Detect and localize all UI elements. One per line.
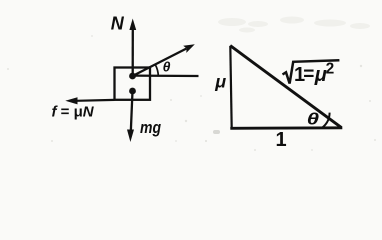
node: upper dot [129, 73, 136, 80]
svg-text:μ: μ [214, 72, 226, 92]
wire: normal force line N [132, 29, 134, 77]
triangle hypotenuse [230, 46, 341, 128]
wire: applied force arrow at angle [133, 49, 187, 77]
svg-text:N: N [111, 13, 125, 33]
arrowhead of friction [65, 97, 77, 104]
arrowhead of N [129, 19, 136, 31]
angle arc theta (block) [155, 65, 158, 76]
angle arc theta (triangle) [323, 113, 330, 128]
svg-text:mg: mg [140, 118, 162, 137]
scattered scan speckles [7, 35, 376, 151]
svg-text:1: 1 [276, 129, 287, 151]
svg-text:θ: θ [307, 109, 320, 128]
svg-text:θ: θ [163, 59, 171, 75]
radical sign of sqrt(1 = mu^2) [283, 60, 340, 83]
faint page bleed-through ghost band top right [218, 17, 370, 33]
wire: horizontal reference line from dot [133, 74, 199, 77]
svg-text:f = μN: f = μN [52, 103, 95, 120]
arrowhead of applied force [183, 44, 195, 53]
triangle left edge [230, 46, 231, 129]
node: lower dot [129, 88, 136, 95]
smudge left of triangle base [213, 130, 220, 134]
svg-text:2: 2 [326, 61, 335, 78]
wire: weight line mg [131, 91, 133, 132]
svg-text:=: = [303, 64, 314, 85]
triangle bottom edge [230, 126, 342, 129]
arrowhead of mg [127, 130, 134, 143]
block (square) of free-body diagram [115, 68, 151, 100]
wire: friction force line [76, 99, 115, 102]
